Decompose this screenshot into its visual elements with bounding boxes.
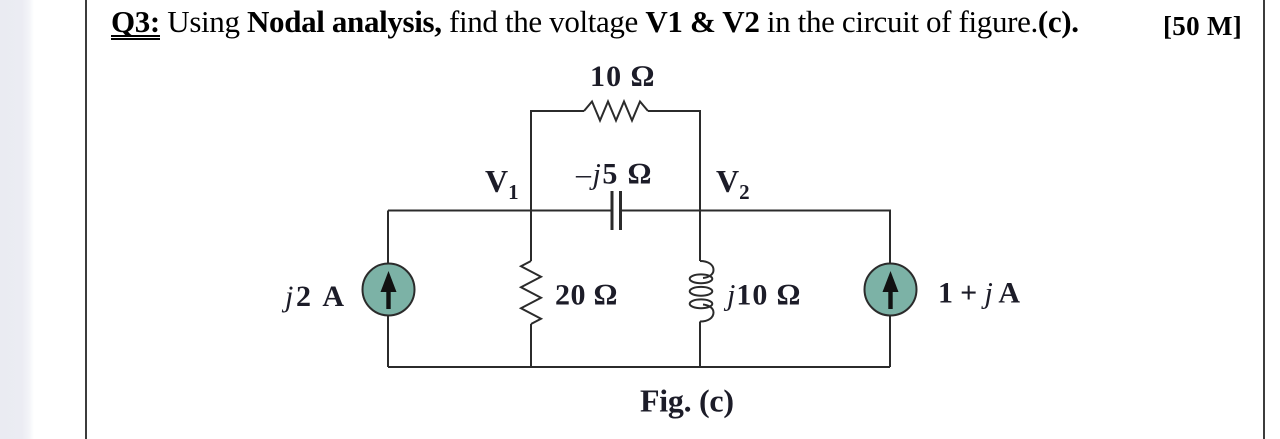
wire: middle rail left segment (j2A branch to capacitor left plate) <box>388 210 612 212</box>
question text <box>111 4 1079 40</box>
table left border <box>85 0 87 439</box>
wire: top-left horizontal (V1 node to 10ohm resistor) <box>531 111 584 211</box>
wire: right branch vertical (1+jA) <box>889 211 891 368</box>
marks label <box>1163 11 1242 42</box>
wire: V2 branch lower (inductor to bottom rail) <box>699 322 701 368</box>
resistor R 10ohm (horizontal zigzag) <box>584 102 648 121</box>
svg-text:V2: V2 <box>716 163 750 204</box>
svg-text:Fig. (c): Fig. (c) <box>640 383 734 419</box>
table right border <box>1263 0 1265 439</box>
svg-text:20 Ω: 20 Ω <box>555 279 617 312</box>
svg-text:–j5 Ω: –j5 Ω <box>575 158 651 191</box>
svg-text:V1: V1 <box>485 163 519 204</box>
inductor L j10ohm (coil) <box>690 261 714 322</box>
capacitor C -j5ohm plate right <box>619 191 622 230</box>
wire: left branch vertical (j2A) <box>387 211 389 368</box>
svg-text:1 + j A: 1 + j A <box>938 277 1020 310</box>
wire: V1 branch lower (20ohm to bottom rail) <box>530 324 532 367</box>
wire: top-right horizontal (10ohm to V2 node) <box>648 111 700 211</box>
current source I1 j2A (circle) <box>363 264 415 316</box>
wire: V2 branch upper (node V2 down to inductor) <box>699 211 701 262</box>
page left edge shading <box>0 0 36 439</box>
resistor R 20ohm (vertical zigzag) <box>521 261 541 324</box>
svg-text:j2 A: j2 A <box>281 280 344 313</box>
current source I1 arrow <box>381 271 397 309</box>
wire: V1 branch upper (node V1 down to 20ohm) <box>530 211 532 262</box>
svg-text:10 Ω: 10 Ω <box>590 60 654 93</box>
wire: bottom rail <box>388 366 890 368</box>
wire: middle rail right segment (capacitor right plate to 1+jA branch) <box>621 210 892 212</box>
current source I2 1+jA (circle) <box>865 264 917 316</box>
svg-text:j10 Ω: j10 Ω <box>723 279 800 312</box>
capacitor C -j5ohm plate left <box>611 191 614 230</box>
current source I2 arrow <box>883 271 899 309</box>
